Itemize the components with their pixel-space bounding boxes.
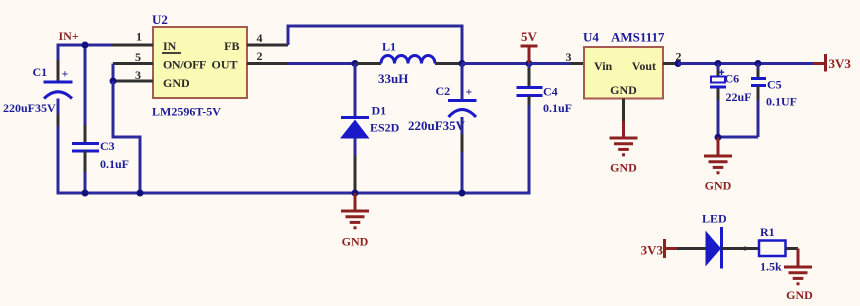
wire LED to R1 [722, 247, 759, 250]
svg-text:D1: D1 [372, 104, 387, 118]
svg-text:0.1uF: 0.1uF [543, 101, 572, 115]
svg-text:AMS1117: AMS1117 [611, 30, 665, 45]
svg-text:L1: L1 [382, 40, 396, 54]
svg-text:5: 5 [135, 50, 141, 64]
wire C2 vertical upper [461, 64, 464, 101]
svg-text:3V3: 3V3 [641, 243, 664, 258]
svg-text:Vin: Vin [594, 59, 613, 73]
node junction C5 top [755, 60, 762, 67]
svg-text:IN+: IN+ [59, 29, 79, 43]
svg-text:R1: R1 [760, 225, 775, 239]
svg-text:U2: U2 [152, 12, 168, 27]
svg-text:GND: GND [786, 288, 813, 302]
capacitor C4 [517, 88, 543, 96]
pin 2 stub (U4) [663, 62, 676, 65]
wire D1 lower lead [354, 138, 357, 193]
svg-text:GND: GND [342, 235, 369, 249]
svg-text:OUT: OUT [211, 58, 237, 72]
op-amp U2 body [153, 27, 247, 98]
pin 3 stub [113, 80, 153, 83]
pin name IN [162, 39, 181, 53]
node junction rail/U2gnd [137, 190, 144, 197]
pin 3 stub (U4) [570, 62, 584, 65]
diode D1 [340, 118, 370, 139]
inductor L1 [381, 56, 435, 64]
svg-text:1.5k: 1.5k [760, 260, 782, 274]
svg-text:3: 3 [566, 50, 572, 64]
node junction U4 out [675, 60, 682, 67]
wire OUT to U4 [529, 62, 571, 65]
ground symbol below D1 [341, 193, 369, 228]
wire D1 upper lead [354, 64, 357, 118]
wire GND net of U2 [113, 81, 140, 193]
wire C3 vertical lower [84, 151, 87, 193]
pin 1 stub [112, 44, 153, 47]
svg-text:ON/OFF: ON/OFF [163, 58, 206, 72]
svg-text:22uF: 22uF [726, 90, 752, 104]
wire C4 vertical upper [528, 64, 531, 87]
wire C5 bottom return [718, 136, 758, 139]
wire C1 vertical upper [57, 44, 60, 82]
svg-text:IN: IN [163, 39, 177, 53]
ground symbol below U4 [610, 138, 638, 155]
svg-text:3: 3 [135, 68, 141, 82]
node junction rail/D1 [352, 190, 359, 197]
svg-text:LED: LED [702, 212, 727, 226]
svg-text:0.1UF: 0.1UF [766, 95, 797, 109]
pin 4 stub [247, 44, 288, 47]
node junction L1/FB/C2 [459, 60, 466, 67]
svg-text:220uF35V: 220uF35V [3, 101, 56, 115]
capacitor C1 [44, 67, 73, 99]
wire IN+ horizontal [58, 44, 113, 47]
svg-text:C5: C5 [767, 78, 782, 92]
svg-text:C1: C1 [33, 65, 48, 79]
capacitor C5 [751, 64, 766, 138]
svg-text:+: + [62, 67, 69, 81]
wire ON/OFF vertical [112, 64, 115, 82]
node junction rail/C3 [82, 190, 89, 197]
svg-text:0.1uF: 0.1uF [100, 157, 129, 171]
wire C4 vertical lower [528, 96, 531, 195]
svg-text:Vout: Vout [632, 59, 656, 73]
power port 5V [521, 29, 538, 64]
node vertex dot [743, 247, 747, 251]
svg-text:FB: FB [224, 39, 239, 53]
node junction IN+/C3 [82, 42, 89, 49]
node junction C6 top [715, 60, 722, 67]
svg-text:220uF35V: 220uF35V [408, 118, 466, 133]
wire ground rail [57, 192, 531, 195]
wire 3V3 to LED [677, 247, 706, 250]
capacitor C6 [710, 64, 726, 138]
power port 3V3 (LED) [641, 239, 677, 258]
svg-text:GND: GND [163, 76, 190, 90]
pin 2 stub [247, 62, 288, 65]
regulator U4 body [584, 47, 663, 99]
svg-text:LM2596T-5V: LM2596T-5V [152, 105, 221, 119]
node junction C6/C5 ground [715, 134, 722, 141]
wire C1 vertical lower [57, 99, 60, 195]
svg-text:GND: GND [610, 161, 637, 175]
svg-text:U4: U4 [583, 30, 599, 45]
resistor R1 [759, 241, 786, 257]
svg-text:C3: C3 [100, 139, 115, 153]
svg-text:GND: GND [705, 179, 732, 193]
diode LED [706, 227, 722, 269]
wire C3 vertical upper [84, 45, 87, 143]
svg-text:C4: C4 [543, 85, 558, 99]
svg-text:33uH: 33uH [378, 71, 408, 86]
node junction OUT/D1 [352, 60, 359, 67]
wire OUT to D1 [288, 62, 356, 65]
ground symbol below C6 [704, 137, 732, 173]
capacitor C3 [72, 144, 99, 152]
wire FB feedback [288, 26, 462, 64]
node junction 5V/C4 [526, 60, 533, 67]
svg-text:1: 1 [136, 30, 142, 44]
power port 3V3 (right) [813, 54, 851, 72]
svg-text:2: 2 [257, 49, 263, 63]
wire L1 left lead [356, 62, 381, 65]
svg-text:ES2D: ES2D [370, 121, 400, 135]
svg-text:+: + [466, 85, 473, 99]
wire U4 GND stem [622, 99, 625, 138]
svg-text:4: 4 [257, 31, 263, 45]
svg-text:C2: C2 [436, 84, 451, 98]
ground symbol below R1 [784, 267, 812, 284]
svg-text:3V3: 3V3 [829, 56, 852, 71]
wire R1 to ground [786, 249, 799, 267]
svg-text:C6: C6 [725, 72, 740, 86]
pin 5 stub [113, 62, 153, 65]
node junction rail/C2 [459, 190, 466, 197]
wire C2 vertical lower [461, 117, 464, 193]
svg-text:GND: GND [610, 83, 637, 97]
node junction pin5/pin3 [110, 78, 117, 85]
wire 3V3 output [678, 62, 814, 65]
wire OUT to 5V node [462, 62, 529, 65]
wire L1 right lead [435, 62, 462, 65]
capacitor C2 [448, 85, 477, 118]
svg-text:5V: 5V [521, 29, 538, 44]
